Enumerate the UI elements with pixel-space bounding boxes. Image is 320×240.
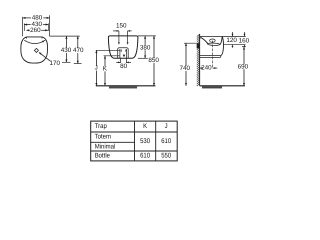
svg-text:Minimal: Minimal (95, 143, 116, 150)
svg-text:J: J (95, 65, 98, 72)
svg-text:150: 150 (116, 22, 127, 29)
svg-text:260: 260 (30, 27, 41, 34)
svg-text:530: 530 (140, 138, 150, 145)
svg-text:550: 550 (161, 153, 171, 160)
svg-text:Bottle: Bottle (95, 153, 110, 160)
svg-text:610: 610 (140, 153, 150, 160)
svg-text:K: K (143, 123, 147, 130)
svg-text:690: 690 (238, 63, 249, 70)
svg-text:240: 240 (201, 65, 212, 72)
svg-text:160: 160 (239, 38, 250, 45)
svg-text:120: 120 (226, 37, 237, 44)
svg-text:740: 740 (179, 65, 190, 72)
svg-text:Trap: Trap (95, 123, 107, 130)
svg-text:J: J (165, 123, 168, 130)
svg-text:80: 80 (120, 63, 128, 70)
svg-text:850: 850 (148, 57, 159, 64)
svg-text:Totem: Totem (95, 134, 112, 141)
svg-text:380: 380 (140, 44, 151, 51)
svg-text:170: 170 (50, 60, 61, 67)
svg-text:430 470: 430 470 (61, 47, 84, 54)
svg-text:610: 610 (161, 138, 171, 145)
